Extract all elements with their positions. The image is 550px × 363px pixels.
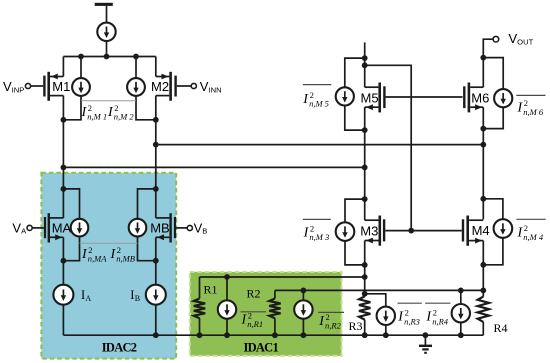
resistor R2 <box>269 299 280 319</box>
noise source In_R4 <box>452 304 470 322</box>
wire M2 source up <box>155 57 157 77</box>
node line B right <box>480 142 486 148</box>
node MA source junction <box>61 258 67 264</box>
svg-text:R2: R2 <box>247 286 261 300</box>
wire In_R2 top stub <box>302 290 304 300</box>
terminal VINN <box>191 83 196 88</box>
node In_R2 top junction <box>301 288 307 294</box>
node R2 bottom junction <box>272 332 278 338</box>
node In_M5 bottom junction <box>362 127 368 133</box>
wire M3 drain from line A <box>364 167 366 220</box>
wire R2 bottom lead <box>274 318 276 335</box>
node MB drain junction <box>153 186 159 192</box>
noise source In_R3 <box>377 307 395 325</box>
svg-text:M6: M6 <box>471 90 489 105</box>
svg-text:R3: R3 <box>349 319 363 333</box>
terminal VOUT <box>493 36 499 42</box>
wire MA source down to IA <box>62 237 64 284</box>
wire In_M6 bottom loop <box>483 107 503 128</box>
label In_MA^2 <box>81 245 107 264</box>
node MA drain junction <box>61 186 67 192</box>
transistor M4 <box>462 216 484 246</box>
current source IB <box>146 285 166 305</box>
wire R1 rail to M3 source <box>200 276 365 278</box>
svg-text:n,R4: n,R4 <box>432 316 449 326</box>
wire M5 gate to M6 gate <box>386 96 463 98</box>
label In_M6^2 <box>516 95 545 117</box>
label In_M2^2 <box>107 103 134 122</box>
noise source In_R1 <box>218 300 236 318</box>
label In_R4^2 <box>425 303 450 326</box>
svg-text:n,M 1: n,M 1 <box>87 112 107 122</box>
wire M5 drain stub from top <box>364 42 366 87</box>
wire In_R3 bottom stub <box>385 325 387 335</box>
wire In_R4 top stub <box>460 290 462 304</box>
node MB source junction <box>153 258 159 264</box>
node In_M4 bottom junction <box>480 262 486 268</box>
wire VINN to M2 gate <box>177 85 191 87</box>
wire MB source down to IB <box>155 237 157 284</box>
noise source In_M1 <box>72 78 90 96</box>
wire In_M6 top loop <box>483 58 503 90</box>
noise source In_M6 <box>494 89 512 107</box>
wire In_R1 bottom stub <box>226 319 228 336</box>
noise source In_R2 <box>294 300 312 318</box>
svg-text:M5: M5 <box>361 90 379 105</box>
resistor R4 <box>478 297 489 322</box>
wire VB to MB gate <box>176 227 187 229</box>
noise source In_M3 <box>336 222 355 241</box>
wire M3 gate to M4 gate <box>385 230 462 232</box>
node M6 drain junction <box>480 55 486 61</box>
wire In_R4 bottom stub <box>460 322 462 335</box>
noise source In_M2 <box>127 78 145 96</box>
label In_M3^2 <box>303 219 331 242</box>
label In_M4^2 <box>516 219 545 242</box>
terminal VA <box>27 225 32 230</box>
node line B left <box>153 142 159 148</box>
node tail junction <box>104 54 110 60</box>
wire M1 source up <box>62 57 64 77</box>
wire VOUT down to M6 <box>483 39 493 87</box>
wire In_M5 bottom loop <box>345 106 365 131</box>
wire R4 bottom lead <box>482 322 484 335</box>
node line A right <box>362 165 368 171</box>
wire In_R1 top stub <box>226 277 228 300</box>
svg-text:MB: MB <box>150 220 170 235</box>
wire R3 bottom lead <box>364 320 366 336</box>
node R1 bottom junction <box>197 332 203 338</box>
wire VA to MA gate <box>32 227 44 229</box>
svg-text:IDAC1: IDAC1 <box>244 341 279 355</box>
node In_M2 top junction <box>133 54 139 60</box>
node In_R2 bottom junction <box>301 332 307 338</box>
terminal VB <box>187 225 192 230</box>
wire IB to bottom rail <box>155 305 157 336</box>
wire M2 drain down <box>155 96 157 120</box>
ground <box>419 335 432 354</box>
svg-text:n,MB: n,MB <box>116 254 135 264</box>
node In_M1 top junction <box>78 54 84 60</box>
node M1 drain junction <box>61 117 67 123</box>
current source IA <box>53 285 73 305</box>
wire M2 drain to MB <box>155 120 157 218</box>
transistor MB <box>156 213 176 242</box>
node ground junction <box>423 332 429 338</box>
node M4 drain junction <box>480 196 486 202</box>
wire line B (M2 drain to M4 drain) <box>156 144 484 146</box>
transistor M2 <box>156 72 177 101</box>
supply bar <box>95 3 113 6</box>
svg-text:n,R3: n,R3 <box>404 316 420 326</box>
node M5 drain B <box>362 62 368 68</box>
resistor R3 <box>359 296 370 319</box>
node line A left <box>61 165 67 171</box>
wire R1 bottom lead <box>199 318 201 335</box>
wire In_MA top loop <box>63 189 79 219</box>
svg-text:n,M 6: n,M 6 <box>523 107 544 117</box>
terminal VINP <box>25 83 30 88</box>
wire In_M4 bottom loop <box>483 238 503 265</box>
node In_R1 top junction <box>224 274 230 280</box>
wire In_M3 top loop <box>345 199 365 222</box>
wire M6 source down <box>482 107 484 219</box>
wire In_MB top loop <box>138 189 156 219</box>
node gate line junction <box>408 228 414 234</box>
label In_M5^2 <box>302 85 331 109</box>
node In_M3 bottom junction <box>362 262 368 268</box>
svg-text:n,M 4: n,M 4 <box>523 232 544 242</box>
wire In_M3 bottom loop <box>345 241 365 265</box>
noise source In_M5 <box>336 87 354 105</box>
noise source In_M4 <box>494 219 513 238</box>
svg-text:M2: M2 <box>151 79 169 94</box>
svg-text:n,R1: n,R1 <box>247 319 263 329</box>
wire In_MA bottom loop <box>63 236 79 260</box>
node R3 bottom junction <box>362 332 368 338</box>
wire In_R3 top loop <box>365 294 386 307</box>
node IB bottom junction <box>153 332 159 338</box>
wire bottom rail <box>63 334 483 336</box>
wire supply stub <box>106 6 108 23</box>
wire R2 rail to M4 source <box>275 289 483 291</box>
overline In_M1 In_M2 <box>81 100 136 102</box>
label In_R1^2 <box>241 310 267 329</box>
label In_M1^2 <box>81 103 108 122</box>
svg-text:MA: MA <box>52 220 72 235</box>
svg-text:n,R2: n,R2 <box>325 321 342 331</box>
node In_R1 bottom junction <box>224 332 230 338</box>
wire In_M2 bottom loop <box>136 96 156 120</box>
svg-text:M3: M3 <box>360 223 378 238</box>
noise source In_MB <box>129 219 147 237</box>
wire In_M4 top loop <box>483 199 503 219</box>
wire In_M1 top stub <box>80 57 82 79</box>
wire IA to bottom rail <box>62 305 64 336</box>
resistor R1 <box>194 299 205 319</box>
node R3 top junction <box>362 291 368 297</box>
svg-text:M1: M1 <box>52 79 70 94</box>
node R4 top junction <box>480 288 486 294</box>
wire In_R2 bottom stub <box>302 319 304 336</box>
IDAC1 block (green box) <box>190 272 342 356</box>
transistor M3 <box>365 216 386 246</box>
svg-text:M4: M4 <box>472 223 490 238</box>
node M3 drain junction <box>362 196 368 202</box>
svg-text:n,MA: n,MA <box>88 254 107 264</box>
node In_M6 bottom junction <box>480 126 486 132</box>
node R1 rail right end <box>362 274 368 280</box>
wire In_MB bottom loop <box>138 236 156 260</box>
svg-text:B: B <box>135 294 140 303</box>
svg-text:IDAC2: IDAC2 <box>102 340 137 354</box>
transistor M5 <box>365 83 386 113</box>
node M2 drain junction <box>153 117 159 123</box>
wire top rail (M1/M2 sources) <box>63 56 155 58</box>
wire M5 source down <box>364 107 366 167</box>
label In_R2^2 <box>318 312 344 331</box>
wire VINP to M1 gate <box>31 85 44 87</box>
noise source In_MA <box>71 219 89 237</box>
wire R1 top lead <box>199 277 201 299</box>
svg-text:n,M 2: n,M 2 <box>114 112 135 122</box>
node In_R4 bottom junction <box>458 332 464 338</box>
label In_MB^2 <box>110 245 135 264</box>
wire tail to rail <box>106 41 108 57</box>
node In_R3 bottom junction <box>383 332 389 338</box>
svg-text:R4: R4 <box>494 321 508 335</box>
wire line A (M1 drain to M3 drain) <box>63 166 364 168</box>
wire M5 drain to M3/M4 gates <box>365 65 412 230</box>
svg-text:R1: R1 <box>204 282 218 296</box>
svg-text:n,M 3: n,M 3 <box>309 232 329 242</box>
wire R2 top lead <box>274 290 276 298</box>
wire In_M5 top loop <box>345 58 365 87</box>
svg-text:n,M 5: n,M 5 <box>309 99 329 109</box>
transistor M1 <box>43 72 63 101</box>
wire M1 drain to MA <box>62 120 64 218</box>
transistor M6 <box>463 83 483 113</box>
svg-text:A: A <box>85 294 91 303</box>
wire M3 source down <box>364 241 366 297</box>
label In_R3^2 <box>397 303 422 326</box>
node M5 drain A <box>362 55 368 61</box>
wire In_M1 bottom loop <box>63 96 81 120</box>
overline In_MA In_MB <box>80 242 138 244</box>
node In_R4 top junction <box>458 288 464 294</box>
current source ITAIL <box>97 23 115 41</box>
wire M1 drain down <box>62 96 64 120</box>
transistor MA <box>44 213 64 242</box>
wire In_M2 top stub <box>135 57 137 79</box>
IDAC2 block (cyan box) <box>41 173 176 359</box>
wire M4 source down <box>482 241 484 297</box>
